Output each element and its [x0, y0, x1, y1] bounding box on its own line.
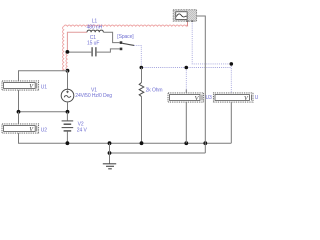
- capacitor C1 left plate: [91, 47, 93, 56]
- resistor R1 bottom pin wire: [141, 97, 143, 144]
- junction battery at ground rail: [66, 141, 70, 145]
- wire: battery V2 bottom pin: [66, 131, 68, 143]
- voltmeter U2 box: [2, 124, 39, 133]
- wire: scope ground rail: [110, 152, 206, 154]
- junction at U1/U2 rail left: [17, 110, 21, 114]
- AC source V1 plus sign: [66, 91, 69, 94]
- node: junction of L1/C1/red wire: [66, 50, 70, 54]
- svg-text:U2: U2: [41, 128, 48, 134]
- junction scope wire at rail: [203, 141, 207, 145]
- svg-text:480 nH: 480 nH: [87, 24, 103, 30]
- wire: voltmeter U4 bottom pin to rail corner: [230, 102, 232, 143]
- junction voltmeter U3 at rail: [184, 141, 188, 145]
- svg-text:2k Ohm: 2k Ohm: [146, 88, 163, 94]
- wire: node to capacitor C1 left pin: [67, 51, 92, 53]
- voltmeter U1 box: [2, 81, 39, 90]
- wire: blue wire horizontal distribution to voltmeters (dashed): [141, 67, 231, 69]
- wire: scope right terminal down to rails: [197, 16, 206, 153]
- resistor R1 top pin wire: [141, 68, 143, 83]
- svg-text:15 uF: 15 uF: [87, 41, 99, 47]
- wire: rail between U1/U2 and sources: [19, 111, 68, 113]
- switch J1 lever: [122, 43, 134, 45]
- AC source V1 sine mark: [64, 96, 71, 98]
- junction on blue wire at resistor top: [140, 66, 144, 70]
- wire: voltmeter U2 bottom pin to ground rail: [19, 133, 68, 143]
- oscilloscope XSC1 icon: [173, 10, 196, 22]
- wire: voltmeter U3 bottom pin: [185, 102, 187, 143]
- svg-text:24V/50 Hz/0 Deg: 24V/50 Hz/0 Deg: [75, 93, 112, 99]
- svg-text:U3: U3: [206, 95, 213, 101]
- switch J1 top contact nub: [120, 41, 123, 44]
- wire: AC source bottom pin: [67, 102, 69, 112]
- wire: voltmeter U2 top pin: [18, 112, 20, 124]
- wire: voltmeter U3 top stub: [185, 90, 187, 93]
- wire: AC source top pin: [67, 71, 69, 90]
- svg-text:U4: U4: [255, 95, 258, 101]
- junction on blue wire at voltmeter U3 branch: [185, 66, 189, 70]
- wire: rail from U1 voltmeter top to AC source node: [19, 71, 68, 81]
- wire: capacitor C1 right pin to switch bottom contact: [96, 49, 120, 52]
- junction at sources rail right: [66, 110, 70, 114]
- wire: blue wire from scope channel B terminal (dashed): [192, 21, 231, 64]
- capacitor C1 right plate: [95, 47, 97, 56]
- svg-text:24 V: 24 V: [77, 127, 88, 133]
- wire: inductor L1 to switch top contact: [103, 32, 119, 42]
- wire: blue wire from switch common down to resistor top node (dashed): [134, 45, 141, 67]
- battery V2 plates: [62, 121, 74, 131]
- wire: solid red wire from node to inductor L1 left pin: [67, 32, 87, 52]
- junction ground stem at scope rail: [108, 151, 112, 155]
- resistor R1 zigzag body: [139, 83, 144, 97]
- wire: red stub up to scope channel A terminal: [187, 21, 189, 26]
- wire: battery V2 top pin: [66, 112, 68, 121]
- switch J1 bottom contact nub: [120, 48, 123, 51]
- ground rail (main bottom rail): [67, 142, 231, 144]
- wire: voltmeter U1 bottom pin to rail: [18, 90, 20, 112]
- svg-text:[Space]: [Space]: [117, 34, 134, 40]
- wire: red selected wire horizontal run to scope channel A (wavy): [64, 25, 188, 26]
- inductor L1 coil: [87, 30, 103, 32]
- wire: blue wire down to voltmeter U4 top (dashed): [230, 64, 232, 93]
- junction resistor R1 at rail: [140, 141, 144, 145]
- AC source V1 circle: [61, 89, 74, 102]
- voltmeter U3 box: [168, 93, 204, 102]
- ground symbol: [103, 143, 116, 169]
- wire: red selected wire left vertical (wavy): [63, 26, 64, 70]
- wire: red selected wire vertical node-to-node (wavy): [66, 52, 67, 71]
- voltmeter U4 box: [213, 93, 253, 102]
- svg-text:U1: U1: [41, 85, 48, 91]
- wire: blue wire down to voltmeter U3 top (dashed): [185, 68, 187, 93]
- junction on blue wire at voltmeter U4 branch: [230, 62, 234, 66]
- node: junction above AC source: [66, 69, 70, 73]
- junction ground symbol at rail: [108, 141, 112, 145]
